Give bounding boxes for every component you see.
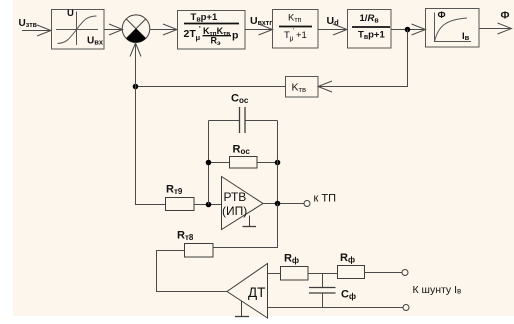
svg-text:2T: 2T <box>184 28 197 40</box>
wire summer to block PI <box>150 24 178 35</box>
block PI regulator transfer function <box>178 11 246 50</box>
wire op-amp output to terminal <box>263 203 304 205</box>
resistor Roc <box>209 144 278 169</box>
op-amp U1 РТВ (ИП) <box>222 177 264 230</box>
summing junction <box>122 15 150 43</box>
svg-text:(ИП): (ИП) <box>222 204 247 218</box>
node op-amp output junction <box>275 201 281 207</box>
svg-text:μ: μ <box>196 33 201 42</box>
wire ДТ to Rф1 <box>268 273 281 275</box>
wire feedback from node down to Kтв <box>318 30 408 93</box>
wire output node down to Rт8 <box>213 204 278 248</box>
svg-text:p: p <box>232 30 238 42</box>
wire output Ф <box>479 23 512 34</box>
wire Kтв to summing node <box>136 86 286 88</box>
wire bottom rail to terminal <box>268 307 404 309</box>
wire right feedback vertical <box>277 121 279 204</box>
wire left feedback vertical <box>208 121 210 205</box>
wire Rт9 to op-amp input <box>194 204 222 206</box>
svg-text:Uвх: Uвх <box>87 36 104 47</box>
svg-text:Ф: Ф <box>438 10 446 21</box>
node junction at x135 <box>133 84 139 90</box>
capacitor Coc <box>209 93 278 134</box>
wire input to limiter <box>22 25 51 36</box>
svg-text:Iв: Iв <box>462 31 470 42</box>
svg-text:Tвр+1: Tвр+1 <box>191 12 218 24</box>
wire PI to thyristor block <box>245 24 273 35</box>
svg-text:Ф: Ф <box>501 10 510 22</box>
wire thyristor to winding block <box>318 24 347 35</box>
terminal top К шунту <box>402 270 408 276</box>
block Kтв feedback gain <box>286 77 319 98</box>
svg-text:μ: μ <box>290 36 294 43</box>
wire Rф1 to Rф2 <box>308 273 337 275</box>
ground of РТВ <box>243 216 257 227</box>
capacitor Cф <box>309 274 356 308</box>
resistor Rт8 <box>177 230 213 258</box>
wire limiter to summer <box>104 24 123 35</box>
block thyristor converter Kтп <box>273 10 319 49</box>
svg-text:к ТП: к ТП <box>314 193 337 205</box>
block limiter (saturation) U/Uвх <box>52 8 105 49</box>
node Uзтв input label <box>19 18 38 29</box>
ground of ДТ <box>235 301 249 317</box>
svg-text:': ' <box>293 28 294 35</box>
svg-text:+1: +1 <box>296 30 307 41</box>
svg-text:U: U <box>67 8 74 19</box>
block magnetization curve Ф(Iв) <box>426 9 480 48</box>
node Ud label <box>327 15 340 27</box>
node output Ф label <box>501 10 510 22</box>
resistor Rт9 <box>166 184 195 211</box>
resistor Rф2 <box>338 252 365 279</box>
wire up into summer <box>130 43 141 87</box>
svg-text:ДТ: ДТ <box>248 285 265 300</box>
node junction before magnetization block <box>405 27 411 33</box>
node Roc left junction <box>206 160 212 166</box>
node op-amp input junction <box>206 202 212 208</box>
svg-text:К шунту Iв: К шунту Iв <box>413 284 462 296</box>
node К шунту Iв label <box>413 284 462 296</box>
svg-text:Tвр+1: Tвр+1 <box>358 30 385 42</box>
svg-text:РТВ: РТВ <box>224 190 247 204</box>
wire Rф2 to top terminal <box>365 272 403 274</box>
node Uвхтп label <box>250 15 273 27</box>
block excitation winding 1/Rв <box>348 10 392 49</box>
wire Rт8 to ДТ output <box>157 251 228 292</box>
wire winding block to magnetization block <box>391 24 426 35</box>
op-amp U2 ДТ <box>227 264 268 319</box>
terminal bottom К шунту <box>403 305 409 311</box>
node Roc right junction <box>275 160 281 166</box>
resistor Rф1 <box>281 253 309 281</box>
terminal к ТП <box>304 193 336 207</box>
wire down to Rт9 <box>136 87 166 205</box>
